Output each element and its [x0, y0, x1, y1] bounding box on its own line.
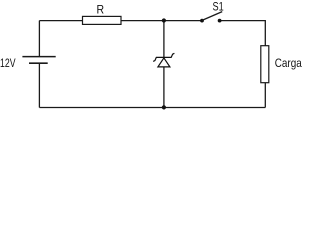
resistor R body — [83, 16, 122, 24]
load resistor Carga body — [261, 46, 269, 83]
wire left lower (battery - to bottom rail) — [38, 63, 40, 107]
switch S1 right pole dot — [218, 19, 222, 23]
svg-text:Carga: Carga — [275, 56, 302, 70]
switch S1 lever — [202, 12, 222, 21]
zener diode D1 cathode bar with bent ends — [153, 53, 174, 61]
switch S1 left pole dot — [200, 19, 204, 23]
svg-text:12V: 12V — [0, 56, 16, 70]
svg-text:R: R — [97, 3, 105, 17]
node junction bottom — [162, 105, 166, 109]
wire right lower (load to bottom rail) — [264, 83, 266, 108]
wire bottom rail — [39, 107, 265, 109]
node junction top — [162, 18, 166, 22]
wire top right (switch right pole to load corner) — [220, 21, 266, 46]
svg-text:S1: S1 — [213, 0, 224, 14]
zener diode D1 triangle — [158, 58, 170, 67]
wire top (battery + to resistor, through zener node, to switch left pole) — [39, 20, 202, 22]
battery B1 12V plates — [22, 56, 55, 58]
wire zener branch vertical — [163, 21, 165, 108]
wire left (battery branch) — [38, 21, 40, 56]
